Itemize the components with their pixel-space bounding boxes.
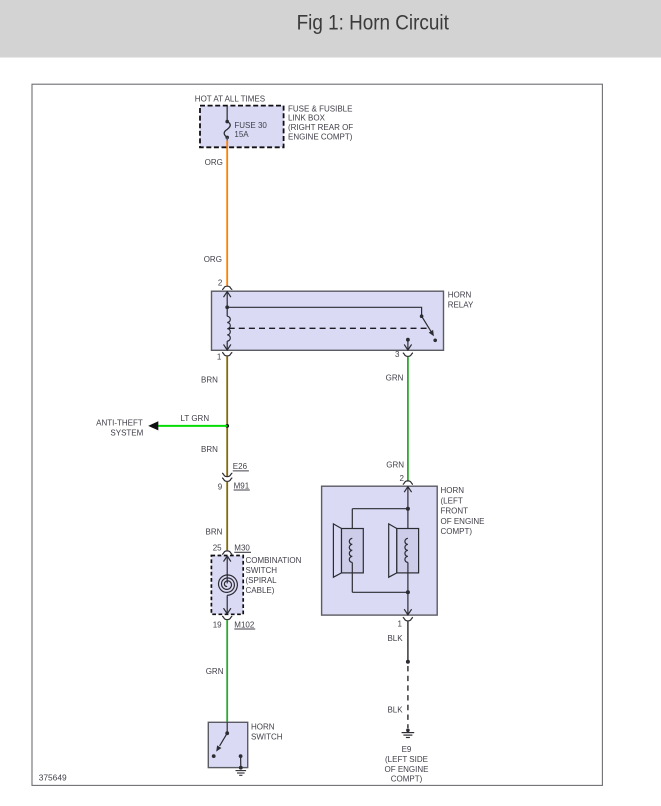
svg-text:OF ENGINE: OF ENGINE (384, 765, 428, 774)
svg-text:2: 2 (218, 279, 223, 288)
junction dot BLK splice (406, 660, 410, 664)
horn switch contact dot left (212, 754, 216, 758)
svg-text:15A: 15A (234, 130, 249, 139)
relay pin3 dot (406, 338, 410, 342)
svg-text:BRN: BRN (201, 445, 218, 454)
fuse box (dashed) (200, 106, 284, 148)
svg-text:COMPT): COMPT) (441, 527, 473, 536)
svg-text:GRN: GRN (206, 667, 224, 676)
wire ORG fuse to relay (226, 141, 228, 287)
connector cup M30 (222, 551, 232, 555)
connector cup pin 3 (403, 353, 413, 357)
relay pin3 terminal arrow (407, 340, 409, 350)
horn assembly box (322, 486, 438, 615)
label E9 (LEFT SIDE OF ENGINE COMPT) (384, 745, 428, 784)
wire horn top link (352, 508, 408, 510)
junction dot relay coil top (225, 305, 229, 309)
svg-text:CABLE): CABLE) (246, 586, 275, 595)
comb switch bottom terminal arrow (226, 598, 228, 614)
spiral cable symbol (219, 575, 238, 596)
left horn coil (349, 538, 352, 562)
relay internal dashed link (229, 327, 429, 329)
svg-text:RELAY: RELAY (448, 301, 474, 310)
wire horn bottom link (352, 591, 408, 593)
connector cup pin 1 (222, 352, 232, 356)
svg-text:19: 19 (213, 620, 222, 629)
svg-text:HORN: HORN (448, 291, 472, 300)
label COMBINATION SWITCH (SPIRAL CABLE) (246, 556, 302, 595)
relay K1 box (212, 291, 444, 350)
combination switch box (dashed) (211, 556, 243, 615)
svg-text:ANTI-THEFT: ANTI-THEFT (96, 419, 143, 428)
svg-text:ORG: ORG (205, 158, 223, 167)
svg-text:BLK: BLK (387, 706, 403, 715)
svg-text:HOT AT ALL TIMES: HOT AT ALL TIMES (195, 94, 265, 103)
svg-text:OF ENGINE: OF ENGINE (441, 517, 485, 526)
relay pin2 terminal arrow (226, 292, 228, 308)
svg-text:375649: 375649 (39, 773, 67, 783)
label HORN RELAY (448, 291, 474, 310)
wire BLK solid (407, 621, 409, 662)
svg-text:(LEFT SIDE: (LEFT SIDE (385, 755, 428, 764)
wire GRN comb switch to horn switch (226, 620, 228, 722)
right horn magnet rect (397, 529, 419, 573)
svg-text:ENGINE COMPT): ENGINE COMPT) (288, 132, 353, 141)
svg-text:COMPT): COMPT) (391, 775, 423, 784)
wire feed into fuse (226, 106, 228, 120)
relay switch pivot dot (420, 314, 424, 318)
right horn flare trapezoid (389, 524, 397, 577)
wire BRN relay to E26 (226, 356, 228, 476)
horn switch box (208, 722, 247, 767)
svg-text:E26: E26 (233, 462, 248, 471)
junction dot horn top (406, 507, 410, 511)
horn switch ground stub (240, 756, 242, 768)
relay coil L (226, 307, 228, 316)
connector cup pin 2 (222, 286, 232, 290)
svg-text:M102: M102 (234, 620, 255, 629)
svg-text:FRONT: FRONT (441, 507, 469, 516)
spiral exit stem (226, 595, 228, 598)
svg-text:LT GRN: LT GRN (181, 414, 210, 423)
svg-text:BRN: BRN (201, 375, 218, 384)
svg-text:SYSTEM: SYSTEM (110, 429, 143, 438)
connector cup horn pin 1 (403, 617, 413, 621)
svg-text:M91: M91 (234, 481, 250, 490)
horn switch pivot dot (225, 731, 229, 735)
svg-text:GRN: GRN (386, 373, 404, 382)
wire left horn down (351, 562, 353, 592)
comb switch top terminal arrow (226, 556, 228, 583)
wire BRN M91 to combination switch (226, 482, 228, 551)
svg-text:(RIGHT REAR OF: (RIGHT REAR OF (288, 123, 353, 132)
connector cup M102 (222, 616, 232, 620)
svg-text:Fig 1: Horn Circuit: Fig 1: Horn Circuit (297, 12, 450, 35)
wire GRN relay to horn (407, 357, 409, 481)
relay switch contact dot (433, 339, 437, 343)
svg-text:BLK: BLK (387, 634, 403, 643)
left horn magnet rect (342, 529, 364, 573)
horn switch arm (220, 733, 228, 746)
horn pin2 terminal arrow (407, 487, 409, 509)
label HORN (LEFT FRONT OF ENGINE COMPT) (441, 486, 485, 536)
svg-text:SWITCH: SWITCH (246, 566, 278, 575)
svg-text:FUSE 30: FUSE 30 (234, 121, 267, 130)
svg-text:COMBINATION: COMBINATION (246, 556, 302, 565)
svg-text:GRN: GRN (386, 460, 404, 469)
svg-text:25: 25 (213, 543, 222, 552)
connector E26/M91 inline cups (222, 473, 232, 477)
label HORN SWITCH (251, 722, 283, 741)
diagram border frame (32, 84, 602, 785)
label fuse &amp; fusible link box (288, 104, 353, 141)
relay coil bottom terminal arrow (226, 344, 228, 351)
wire relay internal horizontal (227, 307, 421, 316)
wire right horn down (407, 562, 409, 592)
svg-text:E9: E9 (402, 745, 412, 754)
right horn coil (405, 538, 408, 562)
wire LT GRN to anti-theft (158, 425, 227, 427)
ground (horn switch) (236, 766, 247, 776)
svg-text:BRN: BRN (206, 527, 223, 536)
connector cup horn pin 2 (403, 481, 413, 485)
junction dot anti-theft tap (225, 424, 229, 428)
horn switch contact dot right (239, 754, 243, 758)
arrowhead to anti-theft system (148, 421, 158, 430)
horn pin1 terminal arrow (407, 592, 409, 615)
svg-text:SWITCH: SWITCH (251, 732, 283, 741)
svg-text:LINK BOX: LINK BOX (288, 114, 326, 123)
svg-text:1: 1 (398, 619, 403, 628)
svg-text:HORN: HORN (441, 486, 465, 495)
label ANTI-THEFT SYSTEM (96, 419, 143, 438)
svg-text:1: 1 (217, 353, 222, 362)
junction dot horn bottom (406, 590, 410, 594)
svg-text:ORG: ORG (204, 255, 222, 264)
wire left horn feed down (351, 509, 353, 539)
svg-text:FUSE & FUSIBLE: FUSE & FUSIBLE (288, 104, 352, 113)
svg-text:HORN: HORN (251, 722, 275, 731)
svg-text:(LEFT: (LEFT (441, 496, 463, 505)
title bar (0, 0, 661, 58)
svg-text:(SPIRAL: (SPIRAL (246, 576, 278, 585)
left horn flare trapezoid (333, 524, 341, 577)
horn switch entry wire (226, 722, 228, 733)
wire BLK dashed to ground (407, 666, 409, 728)
svg-text:M30: M30 (234, 544, 250, 553)
relay switch arm (422, 316, 431, 331)
ground E9 (402, 728, 415, 737)
svg-text:2: 2 (400, 474, 405, 483)
svg-text:3: 3 (395, 350, 400, 359)
wire center through right horn (407, 509, 409, 539)
svg-text:9: 9 (218, 483, 223, 492)
fuse F 30 (224, 120, 230, 141)
